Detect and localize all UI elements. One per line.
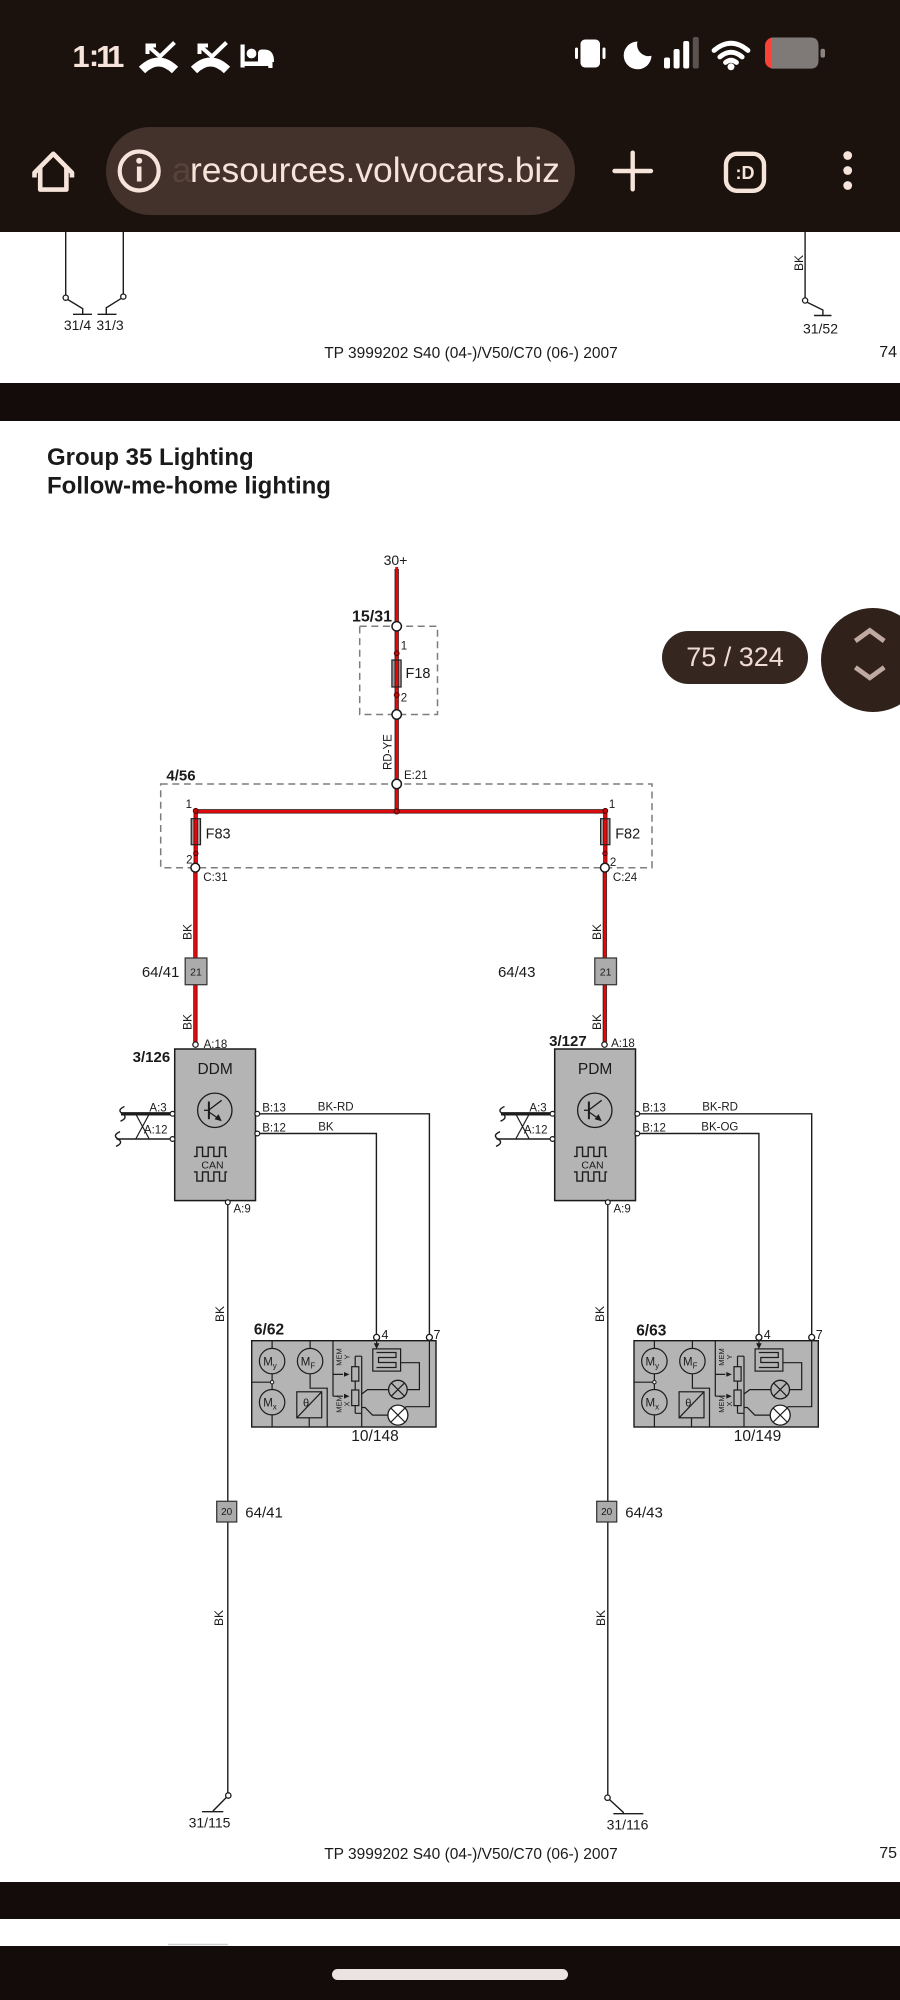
svg-text:15/31: 15/31 (352, 609, 392, 626)
svg-text:BK: BK (213, 1306, 227, 1322)
svg-text:21: 21 (600, 966, 612, 978)
svg-text:10/149: 10/149 (734, 1428, 781, 1445)
svg-text:BK-OG: BK-OG (701, 1122, 738, 1134)
svg-text:31/52: 31/52 (803, 321, 838, 337)
svg-text:3/127: 3/127 (549, 1033, 587, 1050)
svg-text:21: 21 (190, 966, 202, 978)
svg-text:1: 1 (401, 641, 407, 653)
svg-text:2: 2 (401, 693, 407, 705)
svg-text:31/4: 31/4 (64, 317, 91, 333)
svg-text:64/43: 64/43 (498, 964, 536, 981)
svg-text:31/116: 31/116 (607, 1817, 649, 1833)
svg-text:C:24: C:24 (613, 872, 638, 884)
svg-text:RD-YE: RD-YE (383, 734, 395, 770)
svg-text:2: 2 (610, 857, 616, 869)
svg-text:Follow-me-home lighting: Follow-me-home lighting (47, 473, 331, 500)
svg-text:64/43: 64/43 (625, 1505, 663, 1522)
svg-text:BK: BK (590, 1014, 604, 1030)
svg-text:TP 3999202 S40 (04-)/V50/C70 (: TP 3999202 S40 (04-)/V50/C70 (06-) 2007 (324, 1846, 618, 1863)
svg-text:3/126: 3/126 (133, 1049, 171, 1066)
svg-text:A:18: A:18 (611, 1038, 635, 1050)
svg-text:BK: BK (212, 1610, 226, 1626)
svg-text:BK: BK (792, 255, 806, 271)
svg-text:BK: BK (594, 1610, 608, 1626)
svg-text:E:21: E:21 (404, 770, 428, 782)
svg-text:31/115: 31/115 (189, 1815, 231, 1831)
svg-text:BK: BK (590, 924, 604, 940)
svg-text:Group 35 Lighting: Group 35 Lighting (47, 444, 254, 471)
svg-text:74: 74 (879, 344, 897, 361)
svg-text:30+: 30+ (384, 552, 408, 568)
svg-text:BK: BK (318, 1122, 334, 1134)
svg-text:BK: BK (181, 1014, 195, 1030)
svg-text:31/3: 31/3 (96, 317, 123, 333)
svg-text:C:31: C:31 (203, 872, 227, 884)
svg-text:20: 20 (221, 1507, 233, 1518)
svg-text:BK: BK (181, 924, 195, 940)
svg-text:6/62: 6/62 (254, 1322, 284, 1339)
svg-text:DDM: DDM (197, 1061, 232, 1078)
svg-text:1: 1 (609, 799, 615, 811)
svg-text:64/41: 64/41 (245, 1505, 283, 1522)
svg-text:BK-RD: BK-RD (702, 1102, 738, 1114)
svg-text:F82: F82 (615, 827, 640, 843)
svg-text:4/56: 4/56 (166, 768, 195, 785)
svg-text:F18: F18 (406, 666, 431, 682)
svg-text:BK-RD: BK-RD (318, 1102, 354, 1114)
svg-text:F83: F83 (206, 827, 231, 843)
svg-text:BK: BK (593, 1306, 607, 1322)
svg-text:6/63: 6/63 (636, 1323, 667, 1340)
svg-text:1: 1 (186, 799, 192, 811)
svg-text:75: 75 (879, 1845, 897, 1862)
svg-text:TP 3999202 S40 (04-)/V50/C70 (: TP 3999202 S40 (04-)/V50/C70 (06-) 2007 (324, 345, 618, 362)
svg-text:PDM: PDM (578, 1061, 612, 1078)
svg-text:64/41: 64/41 (142, 964, 180, 981)
svg-text:20: 20 (601, 1507, 613, 1518)
svg-text:10/148: 10/148 (351, 1428, 398, 1445)
